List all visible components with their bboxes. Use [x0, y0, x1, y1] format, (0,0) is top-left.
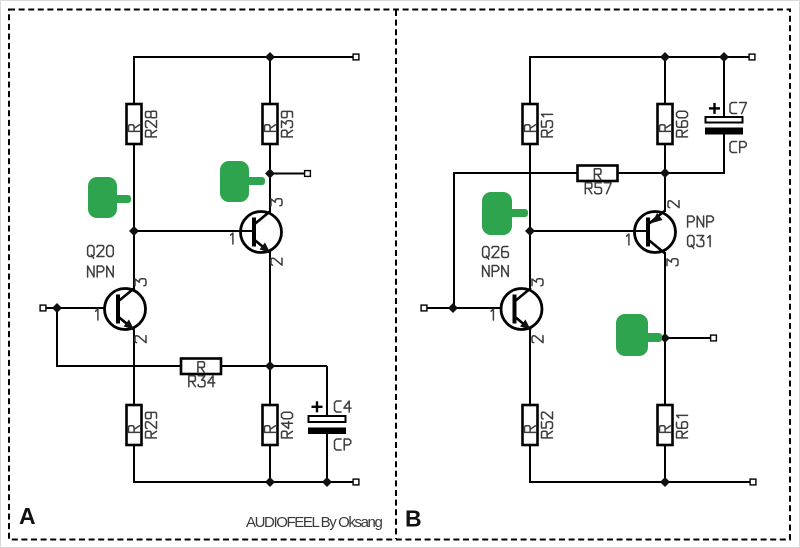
wire R28 top lead [133, 56, 135, 104]
junction R57 right node [660, 168, 670, 178]
wire stub to terminal right A [270, 173, 307, 175]
wire bottom rail B [529, 481, 753, 483]
label NPN of Q26 [483, 266, 509, 277]
pin 3 Q20 [135, 279, 146, 286]
label Q31 [688, 236, 711, 249]
pin 3 upper transistor [271, 199, 282, 206]
wire R39 top lead [269, 56, 271, 104]
wire Q20 emitter down [133, 330, 135, 405]
pin 1 Q20 [96, 309, 98, 320]
label C7 [730, 103, 746, 114]
junction input node A [52, 303, 62, 313]
wire R51 bottom to Q26 collector [529, 144, 531, 289]
label C4 [335, 401, 352, 412]
junction bottom rail at C4 [322, 477, 332, 487]
pin 2 Q31 [668, 201, 679, 208]
transistor T upper (pair of Q20) [241, 212, 282, 253]
label Q26 [483, 247, 509, 260]
wire Q31 emitter pin [664, 173, 666, 212]
wire C7 top lead [723, 56, 725, 117]
label CP of C4 [335, 439, 351, 450]
svg-text:AUDIOFEEL By Oksang: AUDIOFEEL By Oksang [246, 514, 382, 531]
wire R57 row right [618, 172, 724, 174]
pin 1 Q26 [491, 309, 493, 320]
svg-text:A: A [19, 503, 36, 529]
terminal input A [40, 305, 46, 311]
pin 3 Q26 [532, 279, 543, 286]
panel divider dashed [395, 10, 397, 539]
resistor R39 [263, 104, 278, 144]
wire R52 bottom lead [529, 444, 531, 483]
resistor R28 [127, 104, 142, 144]
wire feedback vertical A [56, 308, 58, 367]
junction R39 bottom node [265, 169, 275, 179]
resistor R40 [263, 405, 278, 445]
transistor Q20 [105, 289, 146, 330]
pin 3 Q31 [667, 259, 678, 266]
wire top rail A [134, 56, 356, 58]
pin 2 upper transistor [271, 258, 282, 265]
wire Q31 collector down [664, 252, 666, 338]
transistor Q26 [501, 289, 542, 330]
pin 2 Q20 [135, 336, 146, 343]
resistor R29 [127, 405, 142, 445]
wire C4 top lead [326, 366, 328, 416]
resistor R60 [658, 104, 673, 144]
junction R34 right node [265, 361, 275, 371]
resistor R51 [523, 104, 538, 144]
terminal bottom right B [750, 479, 756, 485]
green probe tag B2 [616, 314, 662, 356]
junction Q31 collector node [660, 333, 670, 343]
wire top rail B [530, 56, 752, 58]
label NPN of Q20 [88, 266, 114, 277]
wire stub to terminal right B [665, 337, 713, 339]
wire input terminal to Q26 base [424, 307, 501, 309]
wire R40 top lead [269, 366, 271, 405]
wire R60 top lead [664, 56, 666, 104]
terminal top right A [353, 54, 359, 60]
wire emitter pin upper transistor down [269, 252, 271, 366]
junction base node A [129, 226, 139, 236]
wire R40 bottom lead [269, 444, 271, 482]
resistor R57 [578, 166, 618, 182]
wire R39 bottom lead [269, 144, 271, 173]
wire R28 bottom to node [133, 144, 135, 231]
wire C7 bottom lead [723, 134, 725, 174]
terminal mid right B [711, 335, 717, 341]
resistor R52 [523, 405, 538, 445]
junction Q26 collector node [525, 226, 535, 236]
pin 2 Q26 [532, 336, 543, 343]
terminal top right B [749, 54, 755, 60]
terminal mid right A [305, 171, 311, 177]
wire R51 top lead [529, 56, 531, 104]
capacitor C4 [308, 401, 346, 434]
green probe tag B1 [482, 192, 528, 235]
junction top rail A [265, 52, 275, 62]
wire bottom rail A [133, 481, 356, 483]
svg-text:B: B [405, 506, 422, 532]
wire Q26 collector node to Q31 base [530, 230, 648, 232]
transistor Q31 PNP [635, 212, 676, 253]
resistor R61 [658, 405, 673, 445]
terminal input B [421, 305, 427, 311]
wire C4 bottom lead [326, 433, 328, 482]
wire left branch vertical B [453, 172, 455, 308]
terminal bottom right A [353, 479, 359, 485]
pin 1 upper transistor [231, 233, 233, 244]
wire R57 row left [454, 172, 577, 174]
pin 1 Q31 [627, 234, 629, 245]
wire R34 row left [56, 365, 181, 367]
green probe tag A1 [88, 177, 131, 218]
wire R34 row right [221, 365, 327, 367]
wire input terminal to Q20 base [43, 307, 105, 309]
wire node to R61 [664, 338, 666, 405]
capacitor C7 [705, 103, 743, 135]
wire R60 bottom lead [664, 144, 666, 173]
wire collector pin upper transistor [269, 173, 271, 212]
wire base of upper transistor [134, 230, 254, 232]
label PNP of Q31 [688, 216, 714, 227]
junction top rail B at C7 [719, 52, 729, 62]
junction bottom rail B [660, 477, 670, 487]
wire R61 bottom lead [664, 444, 666, 482]
junction bottom rail at R40 [265, 477, 275, 487]
wire R29 bottom lead [133, 444, 135, 483]
resistor R34 [181, 359, 221, 375]
wire node to Q20 collector [133, 231, 135, 289]
wire Q26 emitter down [529, 330, 531, 405]
junction top rail B at R60 [660, 52, 670, 62]
label CP of C7 [730, 142, 746, 153]
junction input node B [448, 303, 458, 313]
green probe tag A2 [220, 161, 265, 202]
label Q20 [88, 246, 114, 259]
